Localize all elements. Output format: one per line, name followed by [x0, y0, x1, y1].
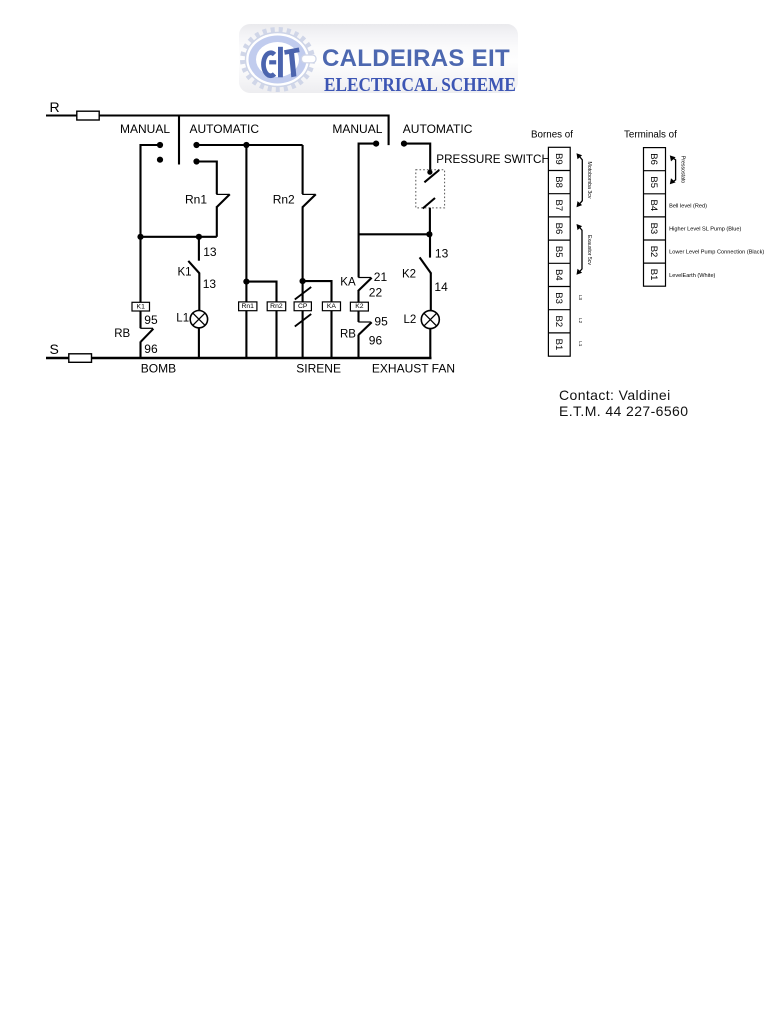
svg-text:CP: CP: [298, 303, 308, 310]
svg-text:Bell level (Red): Bell level (Red): [669, 204, 707, 210]
svg-text:B3: B3: [648, 223, 659, 235]
svg-text:B4: B4: [648, 199, 659, 211]
svg-text:Higher Level SL Pump (Blue): Higher Level SL Pump (Blue): [669, 227, 741, 233]
svg-text:R: R: [50, 99, 60, 115]
svg-text:Motobomba 3cv: Motobomba 3cv: [586, 162, 592, 199]
svg-text:B2: B2: [553, 315, 564, 327]
svg-text:Exaustor 5cv: Exaustor 5cv: [586, 235, 592, 265]
svg-text:SIRENE: SIRENE: [296, 362, 341, 376]
svg-text:13: 13: [203, 277, 217, 291]
svg-text:MANUAL: MANUAL: [120, 122, 170, 136]
svg-text:B8: B8: [553, 176, 564, 188]
svg-text:13: 13: [203, 245, 217, 259]
svg-text:K1: K1: [178, 267, 192, 279]
svg-text:K1: K1: [137, 303, 146, 310]
svg-text:EXHAUST FAN: EXHAUST FAN: [372, 362, 455, 376]
svg-text:B7: B7: [553, 199, 564, 211]
svg-text:Lower Level Pump Connection (B: Lower Level Pump Connection (Black): [669, 250, 764, 256]
svg-text:PRESSURE SWITCH: PRESSURE SWITCH: [436, 153, 550, 166]
svg-text:AUTOMATIC: AUTOMATIC: [403, 122, 473, 136]
svg-text:RB: RB: [340, 329, 356, 341]
svg-text:KA: KA: [340, 277, 356, 289]
svg-text:Bornes of: Bornes of: [531, 130, 573, 141]
svg-text:LevelEarth (White): LevelEarth (White): [669, 273, 715, 279]
svg-text:L2: L2: [578, 318, 583, 324]
svg-text:B2: B2: [648, 246, 659, 258]
svg-text:B1: B1: [553, 339, 564, 351]
svg-text:B4: B4: [553, 269, 564, 281]
svg-text:B9: B9: [553, 153, 564, 165]
svg-text:B5: B5: [553, 246, 564, 258]
svg-text:96: 96: [369, 334, 383, 348]
svg-text:B6: B6: [553, 223, 564, 235]
svg-text:B1: B1: [648, 269, 659, 281]
svg-text:AUTOMATIC: AUTOMATIC: [190, 122, 260, 136]
svg-text:96: 96: [144, 342, 158, 356]
svg-text:Pressostato: Pressostato: [680, 156, 686, 184]
svg-text:Terminals of: Terminals of: [624, 130, 677, 141]
svg-text:Rn1: Rn1: [241, 303, 254, 310]
svg-text:B5: B5: [648, 176, 659, 188]
svg-text:21: 21: [374, 270, 388, 284]
svg-text:K2: K2: [402, 269, 416, 281]
svg-text:MANUAL: MANUAL: [332, 122, 382, 136]
svg-text:RB: RB: [114, 328, 130, 340]
svg-text:KA: KA: [327, 303, 337, 310]
svg-text:Rn2: Rn2: [270, 303, 283, 310]
svg-text:L3: L3: [578, 295, 583, 301]
svg-text:13: 13: [435, 247, 449, 261]
svg-text:95: 95: [374, 314, 388, 328]
svg-text:22: 22: [369, 286, 383, 300]
svg-text:95: 95: [144, 313, 158, 327]
svg-text:Rn2: Rn2: [273, 192, 295, 206]
svg-text:K2: K2: [355, 303, 364, 310]
svg-text:14: 14: [434, 280, 448, 294]
svg-text:S: S: [50, 341, 59, 357]
svg-text:B3: B3: [553, 292, 564, 304]
svg-text:BOMB: BOMB: [141, 362, 176, 376]
svg-text:Rn1: Rn1: [185, 192, 207, 206]
svg-text:L1: L1: [176, 313, 189, 325]
svg-text:B6: B6: [648, 153, 659, 165]
svg-text:L1: L1: [578, 341, 583, 347]
svg-text:L2: L2: [404, 314, 417, 326]
